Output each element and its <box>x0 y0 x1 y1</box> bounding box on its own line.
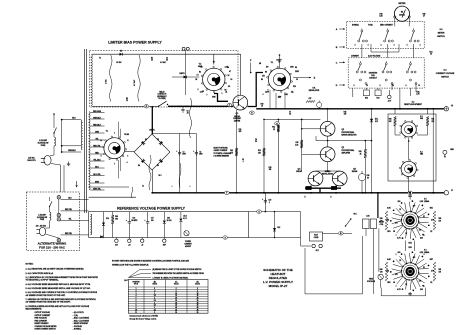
wire fine voltage <box>380 280 382 288</box>
svg-text:R2: R2 <box>126 98 128 100</box>
wire V5 top <box>409 193 411 200</box>
switch S2 wafer 2 <box>387 30 389 32</box>
resistor R41 <box>426 117 429 127</box>
wire loop under V6 <box>381 288 425 296</box>
junction <box>178 106 180 108</box>
heavy upper bus <box>256 108 445 110</box>
terminal pair lamp PL-1 <box>182 47 185 50</box>
svg-text:C9: C9 <box>242 159 244 161</box>
wire V2 V3 link <box>408 138 410 160</box>
svg-text:1N 191: 1N 191 <box>167 220 172 222</box>
svg-text:(–): (–) <box>451 190 454 192</box>
wire taps down to socket <box>117 122 119 137</box>
wire Q5 base drop <box>339 170 341 172</box>
svg-text:T1: T1 <box>99 58 101 60</box>
wire stub below shorting <box>391 84 393 91</box>
svg-text:CURRENT VOLTAGE: CURRENT VOLTAGE <box>436 72 455 75</box>
svg-text:CLOSED): CLOSED) <box>158 98 166 100</box>
wire mid column a <box>236 110 238 193</box>
fuse F1 1-1/2 amp slow-blow <box>54 137 56 146</box>
svg-text:.5: .5 <box>154 290 155 292</box>
transformer T1 primary winding <box>81 120 82 150</box>
heavy wire bridge top to relay bus <box>151 106 153 134</box>
wire ref v1 <box>103 212 105 238</box>
limiter bias dashed box <box>90 51 239 108</box>
svg-text:25: 25 <box>197 300 199 302</box>
reference supply box <box>89 212 249 238</box>
pot R17 reset <box>317 102 322 107</box>
svg-text:.05: .05 <box>291 91 293 93</box>
svg-text:100 MFD: 100 MFD <box>131 220 138 222</box>
svg-text:REGULATOR: REGULATOR <box>309 89 320 92</box>
switch S4 lower contacts <box>359 79 361 81</box>
svg-text:-18 V: -18 V <box>315 250 319 252</box>
svg-text:.1: .1 <box>242 161 243 163</box>
svg-text:R13: R13 <box>258 150 261 152</box>
wire Q3 emitter to bases <box>327 162 329 171</box>
svg-text:R31: R31 <box>430 52 433 54</box>
wire Q2-Q3 <box>327 136 329 147</box>
capacitor C1 3000MFD <box>179 134 181 193</box>
svg-text:– NORMAL: – NORMAL <box>73 328 82 331</box>
resistor R60 <box>385 262 388 281</box>
switch S4 wafer 3 <box>410 63 412 65</box>
tube socket V6 6AU6 <box>268 68 290 90</box>
svg-text:ZERO CURRENT: ZERO CURRENT <box>380 25 393 27</box>
svg-text:YEL: YEL <box>95 138 98 140</box>
line switch SW1 <box>53 113 55 128</box>
svg-text:POSITION: POSITION <box>133 281 140 283</box>
transformer T1 bias secondary winding <box>91 55 92 106</box>
svg-text:3.5: 3.5 <box>154 305 156 307</box>
wire V6 bottom <box>409 292 411 296</box>
junction <box>61 119 63 121</box>
wire meter to switch <box>394 18 396 26</box>
resistor R15 <box>300 140 303 148</box>
svg-text:R8: R8 <box>265 72 267 74</box>
resistor R12 <box>235 148 238 156</box>
svg-text:5: 5 <box>127 156 128 158</box>
svg-text:30: 30 <box>197 302 199 304</box>
svg-text:5. ALL VOLTAGES WERE MEASURED: 5. ALL VOLTAGES WERE MEASURED WITH A LIN… <box>26 287 92 290</box>
pot power current adjust <box>184 231 189 236</box>
relay contacts normally closed <box>158 106 159 107</box>
tube socket V1 heater <box>104 138 125 159</box>
svg-text:S-2: S-2 <box>440 29 443 31</box>
switch lever S5 <box>346 220 351 227</box>
wire limiter top rail <box>92 53 241 55</box>
svg-text:30: 30 <box>175 302 177 304</box>
svg-text:.1: .1 <box>269 202 270 204</box>
svg-text:R15: R15 <box>296 142 299 144</box>
svg-text:FINE VOLTAGE: FINE VOLTAGE <box>35 317 48 320</box>
svg-text:6.2 V: 6.2 V <box>183 218 187 220</box>
svg-text:RESET ADJUSTMENT: RESET ADJUSTMENT <box>404 103 423 106</box>
heavy lower bus <box>152 192 444 194</box>
svg-text:11: 11 <box>100 140 102 142</box>
svg-text:11: 11 <box>135 312 137 314</box>
svg-text:VOLT: VOLT <box>314 234 318 236</box>
wire mid column d <box>301 119 303 171</box>
svg-text:100: 100 <box>380 271 383 273</box>
svg-text:COIL: COIL <box>371 75 375 77</box>
switch position voltage table <box>128 280 208 314</box>
tube socket V5 12B4A <box>419 221 429 223</box>
svg-text:– 1 (A): – 1 (A) <box>73 314 79 317</box>
svg-text:50/60 CPS: 50/60 CPS <box>27 160 36 162</box>
alternate wiring dashed box <box>27 192 80 251</box>
svg-text:7: 7 <box>207 95 208 97</box>
svg-text:CURRENT: CURRENT <box>233 118 241 120</box>
svg-text:VOLTAGE: VOLTAGE <box>367 280 376 283</box>
bridge diode D4 <box>141 159 145 163</box>
svg-text:DOWN CURRENT SWITCH: DOWN CURRENT SWITCH <box>35 329 57 331</box>
svg-text:10: 10 <box>126 100 128 102</box>
svg-text:V-1: V-1 <box>106 131 109 133</box>
svg-text:10: 10 <box>366 85 368 87</box>
svg-text:– (A) 0 VOLTS: – (A) 0 VOLTS <box>73 311 85 314</box>
heavy Q4 Q5 emitter bar <box>305 187 341 189</box>
svg-text:15: 15 <box>430 54 432 56</box>
svg-text:C16: C16 <box>132 218 135 220</box>
svg-text:FUSE: FUSE <box>40 219 44 221</box>
wire branch d12 <box>274 212 276 238</box>
node T on bus <box>224 191 229 194</box>
junction dots lower bus <box>236 192 238 194</box>
svg-text:-10: -10 <box>141 244 143 246</box>
ref winding <box>90 214 91 235</box>
current voltage dashed box S4 <box>348 58 424 88</box>
wavy lead 2 <box>149 155 151 190</box>
svg-text:FINE CURRENT: FINE CURRENT <box>35 320 49 322</box>
wire calibrate <box>323 232 339 234</box>
svg-text:METER: METER <box>438 32 445 34</box>
terminal -18V <box>388 95 392 99</box>
wire Q4 base drop <box>315 170 317 172</box>
transistor Q2 <box>320 121 335 136</box>
junction <box>61 145 63 147</box>
svg-text:R29: R29 <box>423 14 426 16</box>
net F stub <box>250 63 252 73</box>
svg-text:YEL: YEL <box>68 218 71 220</box>
diode D12 <box>273 228 276 231</box>
svg-text:R9: R9 <box>295 67 297 69</box>
svg-text:1 VAC: 1 VAC <box>105 78 108 84</box>
wavy lead 3 <box>179 163 181 188</box>
svg-text:+10: +10 <box>128 244 131 246</box>
svg-text:E: E <box>330 197 331 199</box>
svg-text:D3: D3 <box>157 165 159 167</box>
svg-text:9.1V: 9.1V <box>375 121 378 123</box>
svg-text:R7: R7 <box>279 62 281 64</box>
svg-text:R9: R9 <box>261 79 263 81</box>
heavy wire Q1 to V5 rail <box>248 73 264 107</box>
svg-text:BRN-YEL: BRN-YEL <box>93 188 101 190</box>
svg-text:ZD-2: ZD-2 <box>183 216 186 218</box>
resistor R13 <box>263 148 266 156</box>
svg-text:MEASUREMENTS:: MEASUREMENTS: <box>26 307 43 310</box>
svg-text:1.5: 1.5 <box>154 295 156 297</box>
svg-text:REF: REF <box>163 244 166 246</box>
fine voltage pot R62 <box>378 274 383 279</box>
resistor R50b <box>112 212 114 215</box>
wire mid column c <box>277 119 279 192</box>
svg-text:4. ALL VOLTAGES WERE MEASURED: 4. ALL VOLTAGES WERE MEASURED WITH AN 11… <box>26 283 91 286</box>
diode D11 <box>100 235 103 238</box>
svg-text:COIL: COIL <box>380 224 384 226</box>
wire V2 pins <box>394 126 396 135</box>
svg-text:7. ARROWS ON CONTROLS AND SWI: 7. ARROWS ON CONTROLS AND SWITCHES INDIC… <box>26 298 97 301</box>
bridge diode D3 <box>159 159 163 163</box>
svg-text:LIMITER: LIMITER <box>234 121 241 123</box>
svg-text:– MAX. CLOCKWISE: – MAX. CLOCKWISE <box>73 317 90 320</box>
svg-text:.05: .05 <box>186 113 188 115</box>
wire ref feed upper <box>89 186 129 188</box>
wire V4 plate loop <box>213 54 215 64</box>
wire bridge bottom to ground bus <box>151 170 153 193</box>
svg-text:10: 10 <box>392 85 394 87</box>
svg-text:330: 330 <box>344 114 347 116</box>
AC plug P1 <box>44 156 51 166</box>
junction <box>185 76 187 78</box>
svg-text:AS VIEWED FROM THE FRONT OF TH: AS VIEWED FROM THE FRONT OF THE UNIT. <box>26 294 66 297</box>
svg-text:56: 56 <box>151 60 153 62</box>
resistor R40 <box>394 117 397 127</box>
transformer T1 core <box>84 49 86 213</box>
svg-text:R36: R36 <box>367 175 370 177</box>
svg-text:115 VAC: 115 VAC <box>28 157 35 160</box>
svg-text:RY1: RY1 <box>353 214 356 216</box>
node W on bus <box>408 191 413 194</box>
diode D7 zener <box>370 119 373 122</box>
svg-text:C7: C7 <box>289 112 291 114</box>
svg-text:VIEWED (C) IN THE FOLLOWING EX: VIEWED (C) IN THE FOLLOWING EXAMPLE: <box>112 264 149 267</box>
wavy flux line 6.3 VAC <box>138 55 140 102</box>
svg-text:10: 10 <box>418 85 420 87</box>
junction <box>371 140 373 142</box>
svg-text:R1: R1 <box>151 58 153 60</box>
svg-text:AS VIEWED FROM THE KNOB END OF: AS VIEWED FROM THE KNOB END OF THE SHAFT… <box>26 301 72 304</box>
svg-text:D16: D16 <box>167 218 170 220</box>
svg-text:10: 10 <box>261 106 263 108</box>
meter M1 <box>394 6 409 21</box>
V2 V3 enclosure box <box>388 114 436 181</box>
svg-text:35: 35 <box>197 305 199 307</box>
junction dots upper bus <box>327 108 329 110</box>
svg-text:R17: R17 <box>309 98 312 100</box>
wire v diode column <box>371 109 373 193</box>
svg-text:100: 100 <box>151 220 154 222</box>
svg-text:50: 50 <box>175 312 177 314</box>
wire V3 bottom <box>408 178 410 193</box>
node S <box>250 111 255 114</box>
svg-text:100: 100 <box>439 220 442 222</box>
svg-text:50: 50 <box>367 177 369 179</box>
heavy wire to relay <box>377 193 379 218</box>
wires below S4 <box>352 88 354 97</box>
svg-text:VOLTS: VOLTS <box>152 284 157 286</box>
svg-text:10: 10 <box>135 309 137 311</box>
node U <box>275 122 280 125</box>
svg-text:12AX7: 12AX7 <box>276 59 281 62</box>
svg-text:BLU-YEL: BLU-YEL <box>93 174 100 176</box>
wire plug to alternate box <box>60 165 62 192</box>
svg-text:C3: C3 <box>166 58 168 60</box>
svg-text:20: 20 <box>197 298 199 300</box>
diode D5 1N2071 <box>120 53 123 56</box>
svg-text:R20: R20 <box>115 216 118 218</box>
svg-text:C5: C5 <box>187 111 189 113</box>
svg-text:12B4A: 12B4A <box>424 251 430 254</box>
wavy lead 1 <box>190 98 192 138</box>
svg-text:R52: R52 <box>409 243 412 245</box>
wire Q2 base <box>302 128 321 130</box>
chassis ground <box>68 162 70 165</box>
net E stub <box>293 77 311 79</box>
tube socket V6 12B4A <box>419 272 429 274</box>
svg-text:POWER: POWER <box>185 241 192 243</box>
svg-text:RED-YEL: RED-YEL <box>65 209 72 211</box>
alternate switch SW1A <box>49 197 51 201</box>
svg-text:1N2071: 1N2071 <box>179 73 184 75</box>
wire right edge column <box>432 109 434 193</box>
svg-text:M1: M1 <box>401 12 403 14</box>
junction <box>263 119 265 121</box>
svg-text:.01: .01 <box>225 91 227 93</box>
svg-text:27: 27 <box>423 16 425 18</box>
svg-text:VOLTS: VOLTS <box>174 284 179 286</box>
relay coil RY1 <box>363 219 370 229</box>
svg-text:3000: 3000 <box>199 154 203 156</box>
wire to tube V4 grid <box>172 76 199 78</box>
pot R36 <box>358 174 365 181</box>
diode ZD2 <box>180 212 182 218</box>
wire right branch <box>300 212 302 246</box>
svg-text:C6: C6 <box>296 79 298 81</box>
bridge rectifier diamond <box>134 134 170 170</box>
svg-text:E: E <box>304 197 305 199</box>
node B <box>338 232 343 235</box>
svg-text:– MAX. CLOCKWISE: – MAX. CLOCKWISE <box>73 319 90 322</box>
capacitor C5 <box>182 106 184 109</box>
wire V5 V6 links <box>405 241 407 252</box>
svg-text:8. CONTROLS WERE ADJUSTED AND: 8. CONTROLS WERE ADJUSTED AND SET AS FOL… <box>26 305 90 308</box>
wire ref top ext <box>249 211 301 213</box>
svg-text:RED-BLK: RED-BLK <box>93 124 101 126</box>
svg-text:1. ALL RESISTORS ARE 1/2 WATT: 1. ALL RESISTORS ARE 1/2 WATT UNLESS OTH… <box>26 268 85 271</box>
svg-text:ERROR DETECTOR: ERROR DETECTOR <box>342 135 358 137</box>
svg-text:# 16 WIRE MINIMUM: # 16 WIRE MINIMUM <box>214 156 230 158</box>
svg-text:RESET-STANDBY: RESET-STANDBY <box>35 322 50 325</box>
terminal reset adj <box>444 107 448 111</box>
transistor Q5 <box>332 171 347 186</box>
alternate terminal 1 <box>57 196 60 199</box>
svg-text:R53: R53 <box>387 231 390 233</box>
svg-text:ZD-1: ZD-1 <box>375 119 378 121</box>
svg-text:MODEL IP-27: MODEL IP-27 <box>269 284 288 288</box>
svg-text:R59: R59 <box>387 282 390 284</box>
svg-text:R51: R51 <box>430 208 433 210</box>
resistor R54 <box>385 211 388 230</box>
svg-text:GRN-BLK: GRN-BLK <box>68 150 77 152</box>
transformer T1 main secondary winding <box>89 112 90 190</box>
svg-text:50 V: 50 V <box>158 175 161 177</box>
svg-text:C2: C2 <box>199 152 201 154</box>
capacitor C17 <box>147 212 149 220</box>
node R <box>144 105 149 108</box>
svg-text:3: 3 <box>263 94 264 96</box>
svg-text:YEL-BLK: YEL-BLK <box>93 159 101 161</box>
svg-text:R33: R33 <box>377 97 380 99</box>
svg-text:TO NEGATIVE (-) OUTPUT TERMINA: TO NEGATIVE (-) OUTPUT TERMINAL. <box>26 279 60 282</box>
svg-text:R10: R10 <box>261 104 264 106</box>
svg-text:50: 50 <box>255 141 257 143</box>
svg-text:12B4A: 12B4A <box>424 200 430 203</box>
alternate wires to transformer <box>61 198 89 200</box>
svg-text:CURRENT: CURRENT <box>184 244 191 246</box>
wire cross h <box>264 118 320 120</box>
svg-text:GRN-BLK: GRN-BLK <box>93 117 102 119</box>
wire return bottom <box>305 293 363 295</box>
wire ref feed lower <box>89 196 136 198</box>
transformer secondary tap wires with color labels <box>90 112 104 114</box>
svg-text:COARSE VOLTAGE METER: COARSE VOLTAGE METER <box>35 325 58 328</box>
wire mid column b <box>263 119 265 192</box>
svg-text:0A2: 0A2 <box>420 117 423 120</box>
svg-text:METER: METER <box>399 3 407 5</box>
svg-text:D12: D12 <box>277 227 280 229</box>
wire branch c20 <box>264 193 266 212</box>
svg-text:6.3V: 6.3V <box>115 244 118 246</box>
wire socket to bridge <box>125 151 134 153</box>
svg-text:10: 10 <box>175 293 177 295</box>
svg-text:100: 100 <box>380 220 383 222</box>
svg-text:RED-YEL: RED-YEL <box>93 145 100 147</box>
node P <box>227 103 232 106</box>
alternate terminal 4 <box>57 238 60 241</box>
wire left down column <box>362 193 364 218</box>
switch S4 wafer 1 <box>359 63 361 65</box>
svg-text:R6: R6 <box>225 90 227 92</box>
wire primary top <box>62 119 81 121</box>
svg-text:10: 10 <box>197 293 199 295</box>
transistor Q3 <box>320 147 335 162</box>
terminal lower bus right <box>444 191 448 195</box>
heavy wire V4 cathode <box>214 94 228 102</box>
bridge diode D2 <box>159 141 163 145</box>
wire primary bottom <box>62 151 81 153</box>
node V <box>223 236 228 239</box>
resistor R61 <box>433 262 436 281</box>
svg-text:R32: R32 <box>365 97 368 99</box>
wire V6 top <box>279 55 281 68</box>
svg-text:SWITCH: SWITCH <box>441 76 449 78</box>
svg-text:R57: R57 <box>430 259 433 261</box>
svg-text:D10: D10 <box>106 218 109 220</box>
ref terminals <box>115 239 118 242</box>
ground terminal right <box>443 150 447 154</box>
resistor R18 <box>364 149 367 158</box>
svg-text:15: 15 <box>197 295 199 297</box>
svg-text:C17: C17 <box>151 218 154 220</box>
svg-text:50: 50 <box>197 312 199 314</box>
V6 pin wires <box>269 90 271 109</box>
heavy bus relay to Q1 <box>168 105 233 107</box>
capacitor C16 <box>128 212 130 220</box>
svg-text:35: 35 <box>175 305 177 307</box>
svg-text:R10: R10 <box>293 86 296 88</box>
svg-text:C1: C1 <box>183 152 185 154</box>
